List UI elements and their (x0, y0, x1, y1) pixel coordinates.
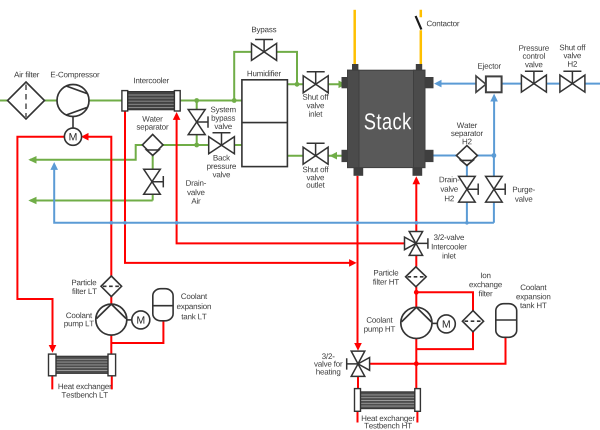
wire green main air line (0, 100, 242, 102)
wire green back pressure line (197, 144, 242, 146)
coolant pump HT P2 (401, 307, 432, 338)
red arrow into heating valve (354, 343, 362, 351)
valve system bypass V1 (188, 110, 208, 135)
green arrow exhaust lower (28, 197, 36, 205)
wire red heat exchanger HT testbench stubs (358, 411, 418, 422)
motor M pump LT (127, 311, 150, 329)
label pressure control valve (519, 45, 549, 51)
label e-compressor (51, 72, 100, 79)
label air filter (14, 72, 39, 78)
green arrow into stack (339, 81, 347, 89)
wire blue stack to water separator H2 (433, 155, 494, 157)
green arrow stack outlet (330, 152, 338, 160)
wire red heat exchanger LT testbench stubs (52, 376, 112, 390)
wire blue drain valve H2 riser (466, 165, 468, 223)
label drain valve H2 (440, 176, 460, 182)
wire red expansion tank LT line (111, 321, 163, 343)
wire red heating valve to heat exchanger HT (357, 376, 359, 388)
label heat exchanger testbench LT (59, 383, 112, 390)
wire green water separator line (142, 144, 208, 146)
valve shut off outlet V6 (303, 143, 328, 164)
wire red pump LT to heat exchanger LT (110, 335, 112, 355)
heat exchanger LT (49, 354, 116, 376)
label heat exchanger testbench HT (362, 415, 415, 422)
wire red ion exchange branch (416, 292, 473, 310)
ion exchange filter (462, 311, 483, 332)
node green junction A (194, 98, 199, 103)
wire green bypass loop (234, 52, 297, 101)
wire red stack bottom right riser (415, 184, 417, 232)
label water separator (142, 116, 162, 122)
blue arrow into stack H2 (434, 80, 442, 88)
label shut off valve inlet (303, 94, 329, 100)
label coolant pump HT (367, 317, 393, 323)
valve pressure control V7 (521, 71, 546, 92)
label purge valve (513, 187, 535, 194)
compressor (57, 85, 89, 117)
label coolant pump LT (66, 312, 92, 318)
wire red intercooler left return (125, 112, 350, 263)
wire green stack outlet to humidifier (287, 155, 341, 157)
valve drain air V3 (144, 169, 164, 194)
red arrow into intercooler (173, 112, 181, 120)
wire green humidifier to stack inlet (287, 83, 339, 85)
label shut off valve outlet (303, 166, 329, 172)
label ejector (478, 63, 501, 70)
wire yellow stack cathode lead (420, 10, 423, 64)
wire blue H2 main line (441, 83, 600, 85)
valve back pressure V2 (209, 133, 235, 154)
node red junction heating line (414, 361, 419, 366)
red arrow into motor (81, 133, 89, 141)
wire blue ejector suction riser (493, 101, 495, 156)
label intercooler (134, 77, 169, 83)
label ion exchange filter (481, 273, 490, 279)
contactor switch blade (416, 16, 422, 30)
particle filter HT (406, 267, 427, 287)
green arrow exhaust upper (28, 156, 36, 164)
label 3/2 valve for heating (322, 353, 335, 359)
wire red ion exchange return (416, 332, 473, 349)
label back pressure valve (214, 155, 231, 161)
valve purge V10 (486, 176, 506, 202)
wire red stack bottom left riser (357, 176, 359, 344)
node green junction C (194, 143, 199, 148)
wire red motor return to particle filter LT (88, 137, 111, 277)
label humidifier (248, 70, 281, 76)
air filter (8, 82, 45, 119)
node green junction B (232, 98, 237, 103)
node blue junction ejector (492, 153, 497, 158)
red arrow into heating riser (349, 259, 357, 267)
wire red pump HT down riser (415, 339, 417, 389)
label contactor (427, 21, 460, 27)
wire red 3/2 valve to particle filter HT (415, 255, 417, 266)
particle filter LT (101, 276, 122, 297)
wire blue purge bottom line (54, 167, 494, 223)
stack U1 (342, 64, 434, 176)
label particle filter LT (72, 279, 96, 285)
red arrow into stack bottom (413, 176, 421, 184)
wire red compressor motor cooling (17, 137, 64, 346)
label coolant expansion tank HT (521, 284, 547, 290)
node green junction D (295, 82, 300, 87)
motor M pump HT (432, 315, 455, 333)
wire red particle filter LT to pump LT (110, 296, 112, 304)
coolant expansion tank LT (153, 289, 173, 321)
intercooler (122, 91, 180, 111)
humidifier (242, 80, 288, 167)
motor M compressor (64, 117, 81, 146)
water separator (142, 134, 163, 155)
label water separator H2 (457, 123, 477, 129)
label system bypass valve (211, 107, 236, 114)
wire red particle filter HT to pump HT (415, 287, 417, 308)
node red junction particle filter HT (414, 290, 419, 295)
wire green water separator to drain valve (152, 155, 154, 200)
wire blue purge valve riser (493, 156, 495, 223)
blue arrow purge up (50, 162, 58, 170)
valve 3/2 intercooler inlet V11 (405, 232, 428, 256)
label drain valve air (186, 180, 206, 186)
wire red intercooler right feed (177, 119, 405, 243)
valve shut off H2 V8 (560, 71, 585, 92)
coolant pump LT P1 (96, 304, 127, 335)
node blue crossing dots (110, 221, 469, 225)
wire green exhaust upper (30, 145, 142, 160)
coolant expansion tank HT (496, 304, 517, 338)
valve shut off inlet V5 (303, 72, 328, 93)
valve bypass V4 (252, 40, 277, 61)
wire green system bypass drop (196, 101, 198, 146)
heat exchanger HT (355, 389, 421, 412)
ejector (476, 76, 502, 92)
wire green exhaust lower (30, 200, 153, 202)
label particle filter HT (374, 270, 398, 276)
water separator H2 (456, 146, 477, 166)
red arrow into LT heat exchanger (49, 345, 57, 353)
label shut off valve H2 (560, 44, 586, 50)
label bypass (252, 27, 276, 34)
blue arrow into ejector (490, 94, 498, 102)
wire yellow stack anode lead (353, 10, 356, 64)
label 3/2 valve intercooler inlet (434, 234, 464, 240)
wire red heating valve line (370, 337, 506, 363)
label coolant expansion tank LT (181, 293, 207, 299)
valve 3/2 for heating V12 (347, 351, 370, 376)
valve drain H2 V9 (459, 176, 479, 202)
